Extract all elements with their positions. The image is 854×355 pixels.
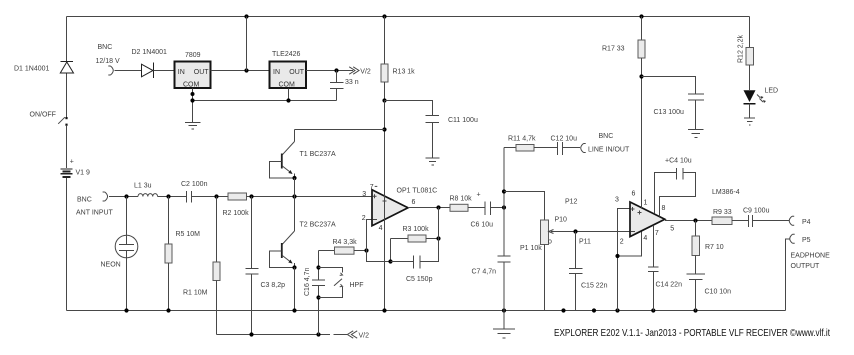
svg-text:C5 150p: C5 150p: [406, 276, 433, 283]
node C16 top: [316, 265, 320, 269]
node rail C7: [502, 308, 506, 312]
lm386 minus mark: [631, 231, 636, 233]
svg-text:7809: 7809: [185, 52, 201, 59]
svg-text:IN: IN: [178, 69, 185, 76]
svg-text:BNC: BNC: [77, 197, 92, 204]
resistor R8: [450, 204, 468, 211]
ground (C7 below rail): [493, 329, 515, 338]
lm386 plus mark (inner): [638, 211, 642, 215]
svg-text:C13 100u: C13 100u: [654, 109, 684, 116]
svg-text:COM: COM: [279, 82, 296, 89]
capacitor C13: [642, 77, 705, 130]
node rail V+ column: [382, 308, 386, 312]
node rail neon: [124, 308, 128, 312]
wire op-amp output: [408, 207, 450, 209]
lamp NEON: [115, 197, 138, 311]
wire D1 to switch: [66, 74, 68, 118]
svg-text:V1 9: V1 9: [76, 170, 91, 177]
virtual ground U TLE2426: [270, 62, 307, 89]
node ant/neon junction: [124, 194, 128, 198]
resistor R13: [384, 17, 386, 65]
capacitor C3: [246, 197, 259, 335]
svg-text:EXPLORER E202 V.1.1- Jan2013 -: EXPLORER E202 V.1.1- Jan2013 - PORTABLE …: [554, 328, 830, 339]
resistor R3: [391, 235, 439, 262]
led arrows: [757, 95, 763, 103]
svg-text:3: 3: [362, 191, 366, 198]
node rail R5: [166, 308, 170, 312]
resistor R5: [165, 197, 172, 311]
svg-text:R12 2,2k: R12 2,2k: [738, 34, 745, 63]
wire T1 junction to signal line: [294, 178, 296, 197]
svg-text:R4 3,3k: R4 3,3k: [333, 239, 358, 246]
node R17 / C13 junction: [639, 74, 643, 78]
connector BNC ANT INPUT: [103, 192, 108, 201]
node rail p11a: [561, 308, 565, 312]
transistor T2 BC237A: [270, 197, 295, 268]
node C6 output: [502, 205, 506, 209]
svg-text:C11 100u: C11 100u: [448, 117, 478, 124]
capacitor C7: [498, 256, 511, 329]
svg-text:D1 1N4001: D1 1N4001: [14, 66, 50, 73]
svg-text:HPF: HPF: [350, 282, 364, 289]
capacitor C16: [312, 251, 325, 335]
ground (C11): [426, 158, 440, 165]
resistor R17: [638, 17, 645, 209]
svg-text:R17 33: R17 33: [602, 46, 625, 53]
wire R2 to op-amp input: [247, 196, 372, 198]
svg-text:5: 5: [670, 225, 674, 232]
opamp minus mark: [373, 219, 378, 221]
svg-text:6: 6: [632, 191, 636, 198]
svg-text:LM386-4: LM386-4: [712, 189, 740, 196]
node R3 right: [436, 236, 440, 240]
svg-text:3: 3: [615, 196, 619, 203]
svg-text:NEON: NEON: [101, 262, 121, 269]
wire R8 to C6: [468, 207, 485, 209]
node top rail / R17 column: [639, 14, 643, 18]
svg-text:V/2: V/2: [359, 333, 370, 340]
ground (7809 com): [185, 123, 201, 130]
svg-text:7: 7: [655, 230, 659, 237]
ground (C13): [688, 130, 704, 138]
svg-text:C9 100u: C9 100u: [743, 208, 770, 215]
potentiometer P1: [504, 192, 630, 311]
node 7809 com pin: [191, 92, 195, 96]
svg-text:4: 4: [643, 235, 647, 242]
svg-text:IN: IN: [273, 69, 280, 76]
svg-text:C14 22n: C14 22n: [656, 282, 683, 289]
transistor T1 BC237A: [270, 130, 295, 179]
svg-text:+: +: [70, 159, 74, 166]
wire C6 to node: [491, 207, 505, 209]
svg-text:D2 1N4001: D2 1N4001: [132, 49, 168, 56]
node rail lm386 gnd: [615, 308, 619, 312]
diode LED: [744, 90, 756, 118]
svg-text:R1 10M: R1 10M: [183, 290, 208, 297]
connector P5: [786, 234, 795, 310]
capacitor C6: [485, 202, 491, 216]
svg-text:R11 4,7k: R11 4,7k: [508, 136, 536, 143]
svg-text:LINE IN/OUT: LINE IN/OUT: [588, 147, 630, 154]
svg-text:6: 6: [412, 199, 416, 206]
amplifier U2 LM386: [618, 202, 665, 311]
node rail p11b: [592, 308, 596, 312]
op-amp OP1 TL081C: [366, 189, 409, 262]
svg-text:o: o: [548, 239, 552, 246]
svg-text:C7 4,7n: C7 4,7n: [472, 269, 497, 276]
svg-text:2: 2: [620, 239, 624, 246]
svg-text:T1 BC237A: T1 BC237A: [300, 151, 337, 158]
wire junction up to top rail: [246, 17, 248, 71]
battery V1: [60, 169, 72, 177]
node com bus / 7809: [190, 98, 194, 102]
svg-text:R2 100k: R2 100k: [223, 210, 250, 217]
node R5 junction: [166, 194, 170, 198]
switch ON/OFF: [58, 117, 67, 126]
node 7809 out junction: [244, 68, 248, 72]
svg-text:V/2: V/2: [360, 69, 371, 76]
node output junction: [436, 205, 440, 209]
wire V/2 dash: [334, 334, 348, 336]
capacitor C10: [687, 274, 706, 310]
wire battery to ground rail: [66, 178, 68, 311]
resistor R11: [504, 145, 558, 152]
svg-text:C3 8,2p: C3 8,2p: [261, 282, 286, 289]
wire T2 emitter to ground rail: [294, 268, 296, 311]
diode D1: [60, 62, 73, 74]
svg-text:C6 10u: C6 10u: [471, 222, 494, 229]
wire battery column top to D1: [66, 17, 68, 62]
node T1/T2 junction on signal: [292, 194, 296, 198]
svg-text:1: 1: [644, 200, 648, 207]
svg-text:COM: COM: [183, 82, 200, 89]
node output / R7: [693, 218, 697, 222]
svg-text:ANT INPUT: ANT INPUT: [76, 210, 114, 217]
connector BNC 12/18V: [108, 66, 113, 75]
svg-text:OUTPUT: OUTPUT: [791, 263, 821, 270]
node rail C10: [693, 308, 697, 312]
wire switch to battery: [66, 126, 68, 168]
node lm386 gnd junction: [615, 254, 619, 258]
node T2 emitter junction: [292, 265, 296, 269]
svg-text:ON/OFF: ON/OFF: [30, 112, 56, 119]
lm386 plus mark (edge): [631, 207, 635, 211]
svg-text:C12 10u: C12 10u: [551, 136, 578, 143]
svg-text:R3 100k: R3 100k: [403, 226, 430, 233]
wire C2 to R2: [192, 196, 229, 198]
svg-text:OUT: OUT: [289, 69, 305, 76]
svg-text:C10 10n: C10 10n: [705, 289, 732, 296]
node V/2 rail C16: [316, 332, 320, 336]
node wiper / C15: [573, 229, 577, 233]
node rail T2: [292, 308, 296, 312]
node rail C14: [651, 308, 655, 312]
wire lm386 output: [665, 220, 712, 222]
node C16 bottom: [316, 295, 320, 299]
svg-text:4: 4: [379, 225, 383, 232]
node R1 junction: [214, 194, 218, 198]
svg-text:BNC: BNC: [98, 44, 113, 51]
net arrow V/2 bottom: [347, 331, 357, 338]
svg-text:P5: P5: [802, 237, 811, 244]
resistor R4: [319, 247, 367, 254]
capacitor C14: [648, 226, 659, 311]
svg-text:7: 7: [370, 184, 374, 191]
wire BNC to D2: [115, 70, 142, 72]
svg-text:BNC: BNC: [599, 133, 614, 140]
capacitor C11: [385, 101, 440, 158]
regulator U 7809: [175, 62, 211, 89]
capacitor C4: [655, 168, 696, 217]
wire L1 to C2: [158, 196, 187, 198]
resistor R12: [746, 17, 754, 91]
capacitor C12: [558, 142, 581, 155]
capacitor C5: [391, 239, 439, 269]
opamp plus mark (edge): [373, 194, 377, 198]
wire ant input line: [109, 196, 138, 198]
wire COM ground bus: [193, 89, 337, 123]
svg-text:TLE2426: TLE2426: [272, 51, 301, 58]
node C3 junction: [249, 194, 253, 198]
node top rail / R13 column: [382, 14, 386, 18]
node V/2 / 33n junction: [334, 68, 338, 72]
wire D2 to 7809: [154, 70, 175, 72]
svg-text:R13 1k: R13 1k: [393, 69, 416, 76]
svg-text:P1 10k: P1 10k: [520, 245, 542, 252]
svg-text:R5 10M: R5 10M: [176, 231, 201, 238]
capacitor C15: [569, 232, 583, 311]
node T1 collector rail junction: [382, 127, 386, 131]
wire ground rail: [67, 310, 786, 312]
svg-text:EADPHONE: EADPHONE: [791, 253, 831, 260]
svg-text:R7 10: R7 10: [705, 244, 724, 251]
svg-text:2: 2: [362, 215, 366, 222]
wire 7809 out to TLE2426 in: [211, 70, 270, 72]
svg-text:C2 100n: C2 100n: [181, 181, 208, 188]
svg-text:P12: P12: [565, 199, 578, 206]
svg-text:L1 3u: L1 3u: [134, 183, 152, 190]
resistor R7: [692, 221, 700, 275]
svg-text:OP1 TL081C: OP1 TL081C: [397, 188, 438, 195]
opamp plus mark (supply): [383, 200, 387, 202]
svg-text:33 n: 33 n: [345, 79, 359, 86]
resistor R1: [213, 197, 220, 335]
connector P4: [789, 216, 794, 225]
svg-text:8: 8: [662, 205, 666, 212]
capacitor C9: [749, 215, 753, 227]
diode D2: [142, 63, 154, 79]
resistor R9: [712, 217, 732, 225]
svg-text:+C4 10u: +C4 10u: [665, 158, 692, 165]
switch HPF: [319, 268, 343, 298]
svg-text:C15 22n: C15 22n: [581, 283, 608, 290]
node R3 left / C5: [388, 259, 392, 263]
svg-text:C16 4,7n: C16 4,7n: [304, 267, 311, 296]
node R4 / inverting input: [364, 248, 368, 252]
svg-text:R8 10k: R8 10k: [450, 196, 473, 203]
svg-text:12/18 V: 12/18 V: [96, 58, 120, 65]
wire audio node column: [503, 148, 505, 257]
capacitor 33n: [330, 71, 344, 101]
wire R9 to C9: [732, 220, 749, 222]
svg-text:P4: P4: [802, 219, 811, 226]
wire TLE2426 out to V/2 arrow: [306, 70, 353, 72]
svg-text:LED: LED: [765, 88, 779, 95]
svg-text:P11: P11: [579, 239, 591, 246]
wire output to feedback: [438, 208, 440, 239]
node top rail / 7809 out column: [244, 14, 248, 18]
capacitor C2: [187, 191, 192, 203]
node T1 emitter/base junction: [292, 176, 296, 180]
inductor L1: [138, 194, 158, 197]
wire R13 junction down to op-amp supply: [384, 101, 386, 311]
ground (LED): [744, 118, 755, 125]
node com bus / TLE2426: [286, 98, 290, 102]
wire C9 to P4: [753, 220, 790, 222]
svg-text:OUT: OUT: [194, 69, 210, 76]
wire top +9V rail: [67, 16, 750, 18]
node R13 bottom junction: [382, 98, 386, 102]
svg-text:P10: P10: [555, 217, 568, 224]
svg-text:T2 BC237A: T2 BC237A: [300, 222, 337, 229]
svg-text:+: +: [477, 192, 481, 199]
wire T1 collector to V+: [295, 129, 385, 131]
node V/2 rail C3: [249, 332, 253, 336]
node line-out tap: [502, 189, 506, 193]
svg-text:R9 33: R9 33: [713, 209, 732, 216]
net arrow V/2 out: [349, 67, 359, 74]
connector BNC LINE IN/OUT: [581, 144, 586, 153]
wire V/2 rail: [217, 334, 331, 336]
resistor R2: [228, 193, 247, 200]
